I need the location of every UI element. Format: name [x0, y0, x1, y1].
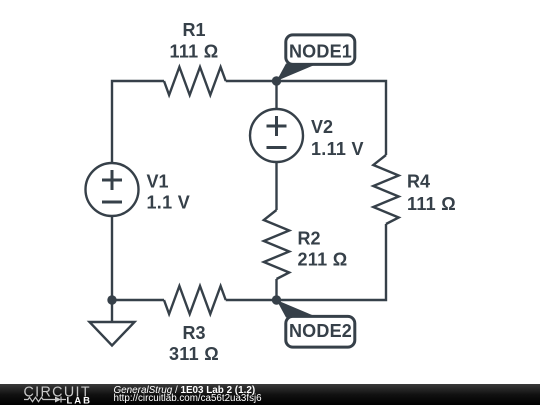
svg-text:1.1 V: 1.1 V: [147, 193, 191, 213]
svg-text:R2: R2: [298, 229, 321, 249]
svg-text:LAB: LAB: [67, 396, 93, 405]
wire bottom-left horizontal: [111, 299, 164, 301]
svg-text:111 Ω: 111 Ω: [170, 42, 219, 62]
voltage source V2: [250, 109, 303, 162]
resistor R3: [164, 286, 226, 314]
node NODE2 flag pointer: [277, 300, 319, 318]
wire middle vertical top: [275, 80, 277, 109]
wire top-right corner: [226, 81, 386, 155]
label R3: [169, 323, 219, 364]
node NODE1 flag box: [286, 35, 355, 65]
svg-text:V1: V1: [147, 172, 169, 192]
svg-text:311 Ω: 311 Ω: [169, 344, 219, 364]
svg-text:1.11 V: 1.11 V: [311, 139, 364, 159]
resistor R4: [373, 155, 398, 224]
label V2: [311, 117, 364, 159]
svg-text:R3: R3: [182, 323, 205, 343]
CircuitLab logo schematic (resistor + diode): [24, 397, 66, 403]
node NODE1 junction dot: [272, 76, 281, 85]
svg-text:http://circuitlab.com/ca56t2ua: http://circuitlab.com/ca56t2ua3fsj6: [114, 393, 263, 404]
svg-text:R1: R1: [182, 20, 205, 40]
node NODE2 junction dot: [272, 295, 281, 304]
svg-text:111 Ω: 111 Ω: [407, 194, 456, 214]
label R1: [170, 20, 219, 62]
node NODE2 flag box: [286, 316, 355, 347]
label R4: [407, 172, 456, 215]
wire left vertical lower: [111, 216, 113, 301]
svg-text:R4: R4: [407, 172, 430, 192]
resistor R1: [164, 67, 226, 95]
label R2: [298, 229, 348, 270]
wire bottom-right corner: [226, 224, 386, 300]
svg-text:V2: V2: [311, 117, 333, 137]
resistor R2: [264, 210, 289, 279]
voltage source V1: [86, 163, 139, 216]
wire middle vertical mid: [275, 162, 277, 210]
node junction dot left-bottom: [107, 295, 116, 304]
wire middle vertical bottom: [275, 279, 277, 301]
ground: [111, 300, 113, 322]
svg-text:NODE1: NODE1: [289, 42, 352, 62]
node NODE1 flag pointer: [277, 64, 319, 82]
svg-text:211 Ω: 211 Ω: [298, 250, 348, 270]
svg-text:NODE2: NODE2: [289, 321, 352, 341]
label V1: [147, 172, 191, 213]
wire top-left corner: [112, 81, 164, 163]
